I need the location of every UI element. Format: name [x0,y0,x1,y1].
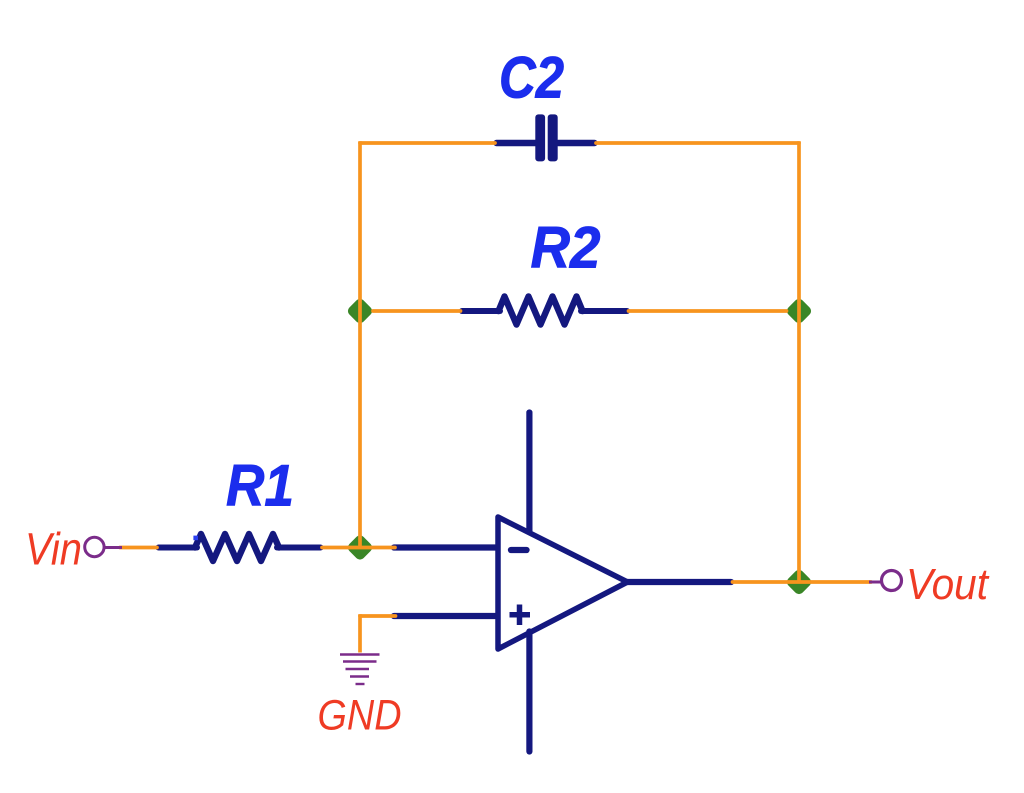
capacitor C2 right plate [548,114,558,161]
op-amp U1 output lead [627,579,731,585]
capacitor C2 left plate [535,114,545,161]
junction node at R2/C2 right [785,297,813,325]
wire R2 row right [629,309,787,313]
terminal Vin circle [104,546,122,549]
resistor R1 zigzag [195,534,279,561]
wire top feedback horizontal right of C2 [596,141,799,145]
svg-text:Vout: Vout [906,561,990,609]
junction node at output [785,568,813,596]
terminal Vout circle [869,581,882,584]
wire R1 to inverting node [322,546,395,550]
wire R2 row left [373,309,461,313]
wire top feedback horizontal left of C2 [360,141,495,145]
resistor R1 right lead [277,545,321,551]
ground symbol [340,655,380,685]
op-amp U1 triangle body [498,517,628,649]
op-amp U1 non-inverting input lead [394,613,498,619]
resistor R2 left lead [462,308,500,314]
wire right feedback vertical [797,141,801,582]
svg-text:R1: R1 [226,454,294,519]
resistor R2 zigzag [499,297,583,325]
resistor R2 right lead [581,308,627,314]
wire ground vertical [358,614,362,652]
capacitor C2 right lead [558,140,595,146]
op-amp U1 negative supply pin [526,632,532,752]
svg-text:R2: R2 [531,216,601,281]
op-amp U1 inverting input lead [394,544,498,550]
wire output to Vout node [733,580,872,584]
op-amp U1 positive supply pin [526,413,532,532]
op-amp U1 plus sign [510,605,531,626]
svg-text:C2: C2 [499,46,564,111]
capacitor C2 left lead [497,140,536,146]
svg-text:Vin: Vin [25,524,82,575]
resistor R1 left lead [159,545,198,551]
stray selection artifact near R1 [193,536,198,541]
wire Vin to R1 [120,546,157,550]
wire non-inverting input horizontal [360,614,396,618]
wire left feedback vertical [358,141,362,547]
op-amp U1 minus sign [511,547,527,553]
svg-text:GND: GND [318,692,402,740]
junction node at inverting input [346,533,374,561]
junction node at R2/C2 left [346,297,374,325]
